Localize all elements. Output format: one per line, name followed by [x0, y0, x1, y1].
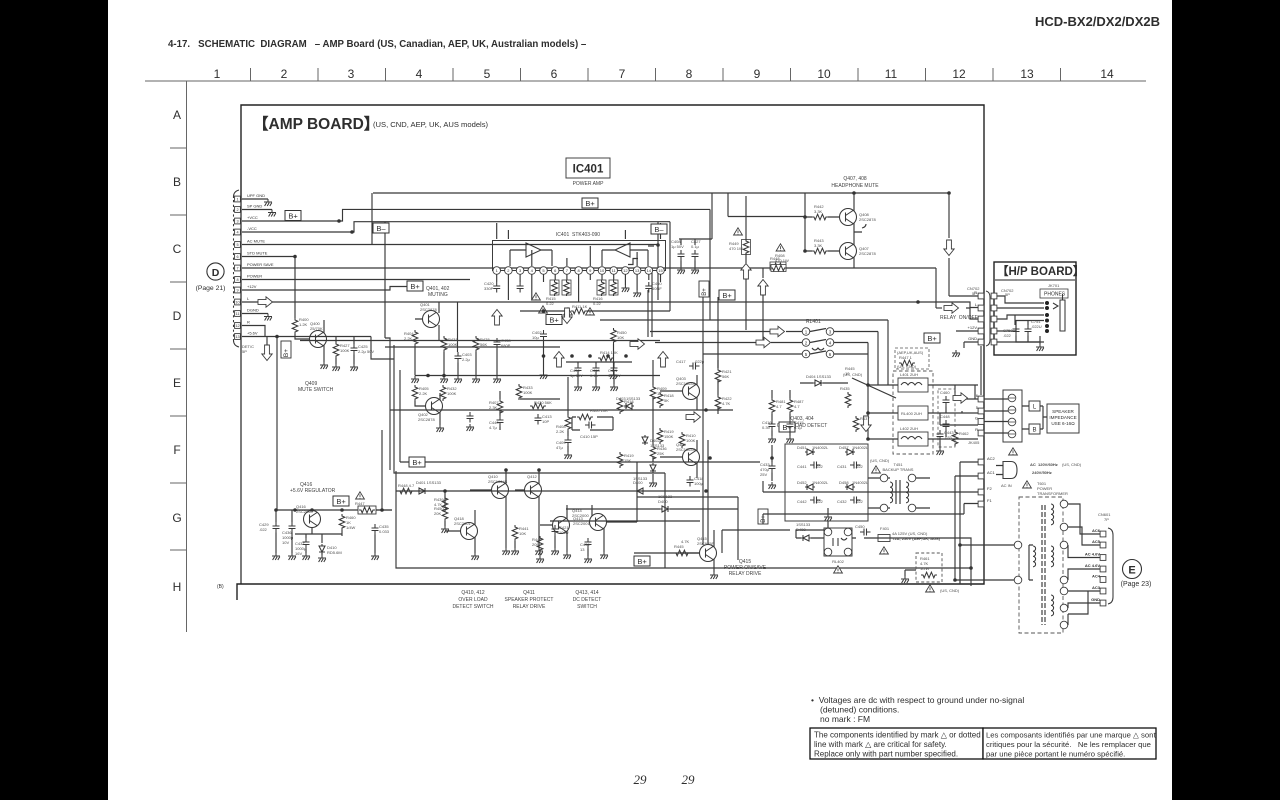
C750 cap [1013, 325, 1020, 336]
svg-text:1N4002L: 1N4002L [812, 480, 829, 485]
R447 fusible resistor boxed [358, 506, 376, 514]
R418 R419 resistors right cluster [617, 398, 623, 414]
C421 cap [552, 525, 559, 536]
speaker impedance box [1047, 404, 1079, 433]
transistor Q401 [423, 311, 440, 328]
svg-text:2SC1864S: 2SC1864S [676, 381, 696, 386]
svg-text:2SC945P: 2SC945P [697, 541, 714, 546]
jack contacts [1045, 301, 1049, 333]
svg-text:AC2: AC2 [987, 456, 996, 461]
vertical x658 [657, 222, 659, 300]
CN702 right pins [991, 293, 997, 299]
svg-text:1/4W: 1/4W [346, 525, 356, 530]
gnd center matrix [827, 508, 829, 514]
svg-text:R445: R445 [674, 544, 684, 549]
svg-text:150K: 150K [664, 434, 674, 439]
IC401 label box [566, 158, 610, 178]
C433 cap left [769, 462, 776, 473]
svg-text:IC401 STK403-090: IC401 STK403-090 [556, 232, 600, 238]
core bars [1042, 505, 1045, 625]
svg-text:D403: D403 [616, 396, 626, 401]
R432 100K [440, 385, 446, 401]
AC plug [1003, 462, 1017, 479]
pin name labels [247, 193, 274, 336]
svg-text:12: 12 [235, 324, 239, 328]
op-amp U1a [526, 243, 541, 257]
D452 diode [805, 484, 815, 490]
svg-text:29: 29 [682, 772, 696, 787]
svg-text:AC4: AC4 [1092, 574, 1101, 579]
svg-text:G: G [172, 511, 181, 525]
svg-text:(US, CND): (US, CND) [940, 588, 960, 593]
C425 cap [351, 344, 358, 355]
svg-text:1N4002L: 1N4002L [852, 445, 869, 450]
svg-text:(detuned) conditions.: (detuned) conditions. [820, 705, 899, 715]
Q401 leads [415, 302, 458, 352]
svg-text:0.39: 0.39 [762, 425, 771, 430]
svg-text:+5.6V REGULATOR: +5.6V REGULATOR [290, 488, 336, 494]
svg-text:(US, CND): (US, CND) [897, 364, 917, 369]
svg-text:C: C [173, 242, 182, 256]
vertical x949 with down arrow to CN702 [948, 193, 950, 296]
bus y553 [634, 552, 700, 554]
vertical x568 branch [567, 377, 569, 452]
transistor Q408 [840, 209, 857, 226]
svg-text:L402 2UH: L402 2UH [900, 426, 918, 431]
svg-text:R447 1: R447 1 [899, 355, 913, 360]
hp gnd [1016, 336, 1040, 345]
svg-text:【AMP BOARD】: 【AMP BOARD】 [253, 115, 379, 133]
left black margin bar [0, 0, 108, 800]
warning triangle R447 [356, 492, 365, 499]
svg-text:+12V: +12V [968, 325, 978, 330]
wires into cn702 [949, 296, 978, 348]
svg-text:10: 10 [600, 268, 605, 273]
svg-text:5P: 5P [242, 349, 247, 354]
svg-text:UPF GND: UPF GND [247, 193, 265, 198]
warning triangle under matrix [872, 466, 881, 473]
svg-text:C431: C431 [837, 464, 847, 469]
svg-text:Q411: Q411 [523, 590, 535, 596]
svg-text:470 1W: 470 1W [729, 246, 743, 251]
svg-text:7: 7 [236, 266, 238, 270]
svg-text:C442: C442 [797, 499, 807, 504]
CN702 left pins [978, 293, 984, 299]
pin12 R wire [242, 326, 265, 337]
svg-text:AC1: AC1 [987, 470, 996, 475]
svg-text:MUTING: MUTING [428, 292, 448, 298]
B- box right [651, 224, 667, 234]
svg-text:6: 6 [551, 67, 558, 81]
svg-text:MUTE SWITCH: MUTE SWITCH [298, 387, 334, 393]
svg-text:1.2K: 1.2K [299, 322, 308, 327]
svg-text:0.033: 0.033 [379, 529, 390, 534]
svg-text:HCD-BX2/DX2/DX2B: HCD-BX2/DX2/DX2B [1035, 14, 1160, 29]
svg-text:10μ: 10μ [532, 335, 539, 340]
C435 cap [372, 524, 379, 535]
left ruler line [186, 81, 188, 632]
mid bus y338 [300, 338, 660, 470]
vertical B+ box x703 [699, 281, 709, 297]
R442 resistor [812, 214, 828, 220]
gnd below pin13 [633, 290, 641, 297]
up arrow right of IC [758, 280, 768, 296]
pin3 +VCC wire [242, 209, 710, 320]
svg-text:2SC2001: 2SC2001 [573, 521, 590, 526]
pin9 +12V wire [242, 287, 407, 291]
svg-text:F1: F1 [987, 498, 992, 503]
svg-text:R448 4.7: R448 4.7 [398, 483, 415, 488]
R431 100K [441, 336, 447, 352]
T601 dashed box [1019, 497, 1063, 633]
secondary coils [1051, 504, 1054, 525]
svg-text:3: 3 [236, 219, 238, 223]
grounds under c402 r450 [544, 341, 614, 373]
transistor Q407 [840, 243, 857, 260]
svg-text:25V: 25V [760, 472, 767, 477]
svg-text:R435: R435 [840, 386, 850, 391]
svg-text:8: 8 [686, 67, 693, 81]
svg-text:2: 2 [236, 208, 238, 212]
svg-text:3: 3 [348, 67, 355, 81]
left ruler ticks [170, 148, 186, 550]
svg-text:(US, CND): (US, CND) [843, 372, 863, 377]
RC parallel loop R400 C410 [572, 417, 613, 430]
B+ box [779, 422, 795, 432]
svg-text:D451: D451 [797, 445, 807, 450]
svg-text:The components identified by m: The components identified by mark △ or d… [814, 731, 981, 740]
svg-text:0.1μ: 0.1μ [794, 425, 803, 430]
D457 diode [845, 449, 855, 455]
svg-text:C441: C441 [797, 464, 807, 469]
pin8 POWER wire [242, 279, 470, 281]
svg-text:4.7K: 4.7K [434, 502, 443, 507]
svg-text:14: 14 [1100, 67, 1114, 81]
fuse pin boxes [978, 459, 984, 465]
secondary terminals [1060, 500, 1068, 508]
svg-text:2.2K: 2.2K [556, 429, 565, 434]
gnd below pin12 [621, 285, 629, 292]
svg-text:11: 11 [885, 67, 898, 81]
D402 diode vertical [642, 435, 648, 445]
bus y320 to x888 [600, 320, 888, 385]
svg-text:-VCC: -VCC [247, 226, 257, 231]
B+ box right of Q416 [333, 496, 349, 506]
svg-text:AC3: AC3 [1092, 585, 1101, 590]
svg-text:R400 10K: R400 10K [590, 408, 608, 413]
svg-text:.022U: .022U [1031, 324, 1042, 329]
RL400 dashed box [893, 371, 933, 454]
svg-text:C432: C432 [837, 499, 847, 504]
svg-text:13: 13 [635, 268, 640, 273]
op-amp U1b [615, 243, 630, 257]
Q418 transistor [461, 523, 478, 540]
svg-text:1N4002L: 1N4002L [852, 480, 869, 485]
svg-text:7P: 7P [1104, 517, 1109, 522]
svg-text:13: 13 [580, 547, 585, 552]
svg-text:RELAY ON/OFF: RELAY ON/OFF [940, 315, 978, 321]
svg-text:2SC1864S: 2SC1864S [676, 447, 696, 452]
transistors Q417 Q404 over-load [683, 383, 700, 400]
svg-text:Replace only with part number: Replace only with part number specified. [814, 750, 958, 759]
svg-text:POWER AMP: POWER AMP [573, 181, 605, 187]
transistor Q409 [310, 331, 327, 348]
resistor below pin7 [562, 280, 571, 295]
bus y491 [396, 490, 700, 492]
wires to speaker conn [984, 399, 1008, 433]
svg-text:B+: B+ [702, 288, 708, 296]
svg-text:F: F [173, 443, 180, 457]
svg-text:critiques pour la sécurité.: critiques pour la sécurité. Ne les rempl… [986, 740, 1151, 749]
C442 cap [810, 497, 821, 504]
svg-text:【H/P BOARD】: 【H/P BOARD】 [997, 265, 1084, 278]
svg-text:5: 5 [236, 243, 238, 247]
R404 resistor [412, 330, 418, 346]
svg-text:2.2μ 50V: 2.2μ 50V [358, 349, 374, 354]
E circle page ref [1123, 560, 1142, 579]
B- box left [373, 223, 389, 233]
svg-text:E: E [1128, 565, 1135, 577]
Q415 relay drive transistor [700, 545, 717, 562]
svg-text:29: 29 [634, 772, 648, 787]
inner loop left [382, 345, 665, 568]
warning triangles under IC [532, 293, 541, 300]
bus y458 B+ [400, 370, 760, 462]
left vertical x373 [371, 193, 373, 245]
T451 transformer [880, 474, 888, 482]
svg-text:AC6: AC6 [1092, 528, 1101, 533]
svg-text:Les composants identifiés par: Les composants identifiés par une marque… [986, 731, 1156, 740]
svg-text:C410 15P: C410 15P [580, 434, 598, 439]
svg-text:RELAY DRIVE: RELAY DRIVE [513, 604, 546, 610]
svg-text:3.3K: 3.3K [814, 243, 823, 248]
circled D page ref [207, 263, 224, 280]
speaker pin boxes [978, 396, 984, 402]
R449 feed wires [728, 193, 805, 263]
svg-text:330P: 330P [484, 286, 494, 291]
bus y508 from frame [277, 509, 392, 511]
svg-text:POWER: POWER [247, 274, 262, 279]
B+ box left of relay drive [634, 556, 650, 566]
svg-text:B: B [1032, 428, 1036, 434]
svg-text:R437: R437 [860, 416, 870, 421]
svg-text:AC5: AC5 [1092, 539, 1101, 544]
svg-text:100μ: 100μ [694, 481, 704, 486]
relay pins [802, 328, 810, 336]
R421 R422 column [717, 360, 719, 414]
svg-text:B: B [173, 175, 181, 189]
down arrow under pin13 wire [266, 337, 268, 346]
svg-text:47μ: 47μ [556, 445, 563, 450]
bus y410 [390, 409, 733, 411]
svg-text:25/70K: 25/70K [310, 326, 323, 331]
svg-text:4-17. SCHEMATIC DIAGRAM –: 4-17. SCHEMATIC DIAGRAM – AMP Board (US,… [168, 39, 587, 50]
R448 4.7 resistor horizontal [398, 488, 414, 494]
svg-text:.022: .022 [815, 464, 824, 469]
svg-text:240V/50Hz: 240V/50Hz [1032, 470, 1052, 475]
C438 680P [494, 338, 501, 349]
svg-text:(B): (B) [217, 584, 224, 590]
resistor below pin10 [597, 280, 606, 295]
svg-text:100K: 100K [523, 390, 533, 395]
svg-text:DETECT SWITCH: DETECT SWITCH [452, 604, 493, 610]
svg-text:4: 4 [236, 230, 238, 234]
svg-text:H: H [173, 580, 182, 594]
B+ box floating [582, 198, 598, 208]
svg-text:4.7K: 4.7K [722, 401, 731, 406]
transistor Q416 [304, 511, 321, 528]
L401 coil top [898, 378, 928, 392]
svg-text:+VCC: +VCC [247, 215, 258, 220]
svg-text:IMPEDANCE: IMPEDANCE [1049, 415, 1076, 420]
R430 56K horizontal with cap C413 [520, 398, 560, 400]
svg-text:100K: 100K [686, 438, 696, 443]
svg-text:A: A [173, 108, 181, 122]
warning triangle above plug [1009, 448, 1018, 455]
svg-text:6: 6 [236, 255, 238, 259]
svg-text:4: 4 [416, 67, 423, 81]
wires L B to box [1022, 406, 1047, 429]
bus y375 [415, 375, 660, 377]
Q409 leads [323, 320, 325, 362]
C751 cap [1025, 325, 1032, 336]
svg-text:BACKUP TRANS: BACKUP TRANS [883, 467, 914, 472]
safety note box english [810, 728, 983, 759]
warning above R449 [734, 228, 743, 235]
C408 cap [678, 250, 685, 261]
svg-text:4.7: 4.7 [794, 404, 800, 409]
svg-text:2SC2878: 2SC2878 [859, 217, 876, 222]
svg-text:D401 1SS133: D401 1SS133 [416, 480, 442, 485]
svg-text:B+: B+ [283, 349, 290, 357]
R461 dashed box [916, 553, 942, 582]
D410 zener [319, 544, 325, 554]
svg-text:.022: .022 [815, 499, 824, 504]
arrow mid 637 [630, 339, 645, 349]
svg-text:10K: 10K [519, 531, 526, 536]
R481 R487 resistors overload [769, 398, 775, 414]
B+ box muting [407, 281, 423, 291]
svg-text:(US, CND): (US, CND) [870, 458, 890, 463]
svg-text:D404 1SS133: D404 1SS133 [806, 374, 832, 379]
brace [986, 291, 990, 346]
C418 cap [687, 476, 694, 487]
svg-text:RELAY DRIVE: RELAY DRIVE [729, 571, 762, 577]
x653 branch [652, 360, 654, 480]
svg-text:L401 2UH: L401 2UH [900, 372, 918, 377]
R407 C440 branch [499, 391, 501, 430]
svg-text:B+: B+ [761, 515, 767, 523]
emitter bus [276, 510, 342, 543]
svg-text:100K: 100K [340, 348, 350, 353]
svg-text:56K: 56K [722, 374, 729, 379]
svg-text:R411 1K: R411 1K [572, 304, 588, 309]
svg-text:13: 13 [1020, 67, 1034, 81]
svg-text:5K: 5K [664, 398, 669, 403]
zobel network dashed box [938, 389, 955, 447]
svg-text:5: 5 [484, 67, 491, 81]
svg-text:2SC2001: 2SC2001 [454, 521, 471, 526]
svg-text:no mark : FM: no mark : FM [820, 714, 870, 724]
over load pair Q410 Q412 [492, 482, 509, 499]
svg-text:5P: 5P [1005, 292, 1010, 297]
svg-text:.022: .022 [855, 464, 864, 469]
svg-text:2SC2878: 2SC2878 [859, 251, 876, 256]
svg-text:1μ 50V: 1μ 50V [671, 244, 684, 249]
svg-text:R430 56K: R430 56K [534, 400, 552, 405]
svg-text:15K: 15K [624, 458, 631, 463]
Q407 stub mark [862, 224, 866, 228]
svg-text:14: 14 [647, 268, 652, 273]
H/P BOARD box [994, 262, 1076, 355]
svg-text:par une pièce portant le numér: par une pièce portant le numéro spécifié… [986, 750, 1125, 759]
svg-text:11: 11 [236, 312, 240, 316]
up arrows under IC [492, 310, 502, 326]
C417 cap horizontal [689, 363, 700, 370]
svg-text:2.3K: 2.3K [489, 405, 498, 410]
svg-text:POWER SAVE: POWER SAVE [247, 262, 274, 267]
bus y521 [550, 520, 700, 522]
svg-text:R462: R462 [959, 431, 969, 436]
svg-text:RD5.6M: RD5.6M [327, 550, 342, 555]
R433 resistor [516, 384, 522, 400]
svg-text:1K: 1K [657, 391, 662, 396]
svg-text:12: 12 [952, 67, 966, 81]
R405 2.2K under bus [412, 385, 418, 401]
svg-text:12: 12 [623, 268, 628, 273]
B+ box under IC [546, 315, 562, 325]
svg-text:STD MUTE: STD MUTE [247, 251, 268, 256]
svg-text:AC 4.6V: AC 4.6V [1085, 552, 1100, 557]
C402 cap [540, 330, 547, 341]
svg-text:AC IN: AC IN [1001, 483, 1012, 488]
relay contacts [810, 329, 826, 355]
svg-text:D: D [212, 267, 220, 279]
vertical B+ box right column [758, 509, 768, 524]
pin11 DGND to ground [242, 313, 268, 315]
svg-text:(US, CND): (US, CND) [1062, 462, 1082, 467]
connector D brace [233, 190, 239, 347]
svg-text:1SS133: 1SS133 [626, 396, 641, 401]
ground row under muting [415, 346, 497, 376]
arrows into relay [770, 326, 785, 336]
brace [1108, 528, 1113, 604]
svg-text:56K: 56K [480, 342, 487, 347]
hp wiring [997, 296, 1044, 342]
svg-text:1: 1 [236, 197, 238, 201]
vertical pair x706 x710 [703, 297, 718, 545]
pin2 wire to ground [242, 209, 272, 211]
svg-text:.022μ: .022μ [694, 359, 705, 364]
svg-text:0.22: 0.22 [593, 301, 602, 306]
pin13 +5.6V wire [242, 337, 371, 511]
pin4 -VCC wire [242, 222, 670, 232]
R443 resistor [812, 248, 828, 254]
R408 boxed resistor on power save line [771, 265, 786, 272]
D458 diode [845, 484, 855, 490]
svg-text:(US, CND, AEP, UK, AUS models): (US, CND, AEP, UK, AUS models) [373, 120, 489, 129]
left vertical x385 [384, 222, 386, 338]
R441 resistor [512, 525, 518, 541]
svg-text:+5.6V: +5.6V [247, 331, 258, 336]
svg-text:DGND: DGND [247, 308, 259, 313]
svg-text:2SC2878: 2SC2878 [420, 307, 437, 312]
C436 cap [289, 522, 296, 533]
AMP BOARD outer frame [237, 105, 984, 600]
wires relay402 [722, 521, 878, 553]
inner bottom bus y568 [396, 471, 971, 568]
D403 diode [624, 403, 634, 409]
